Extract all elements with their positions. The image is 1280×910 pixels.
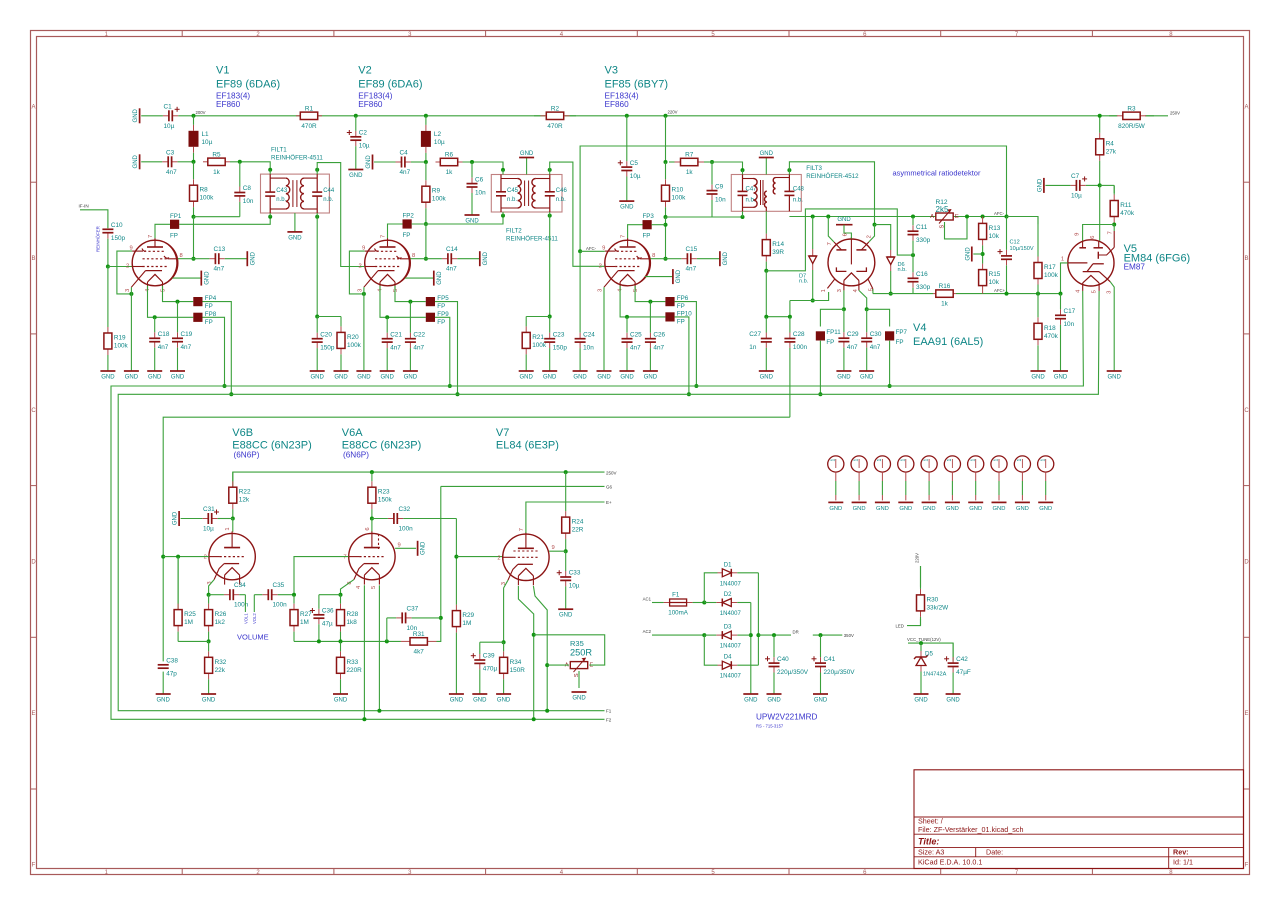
resistor R27 (290, 595, 312, 642)
svg-text:250R: 250R (570, 647, 592, 657)
junction FILT1 pin bl (268, 215, 272, 219)
svg-text:220µ/350V: 220µ/350V (777, 669, 809, 676)
wire V3 pin7 to FP3 (628, 225, 643, 239)
svg-text:GND: GND (311, 375, 325, 381)
wire V4 pin5 drop (872, 289, 874, 294)
wire FILT2 to V3 grid (550, 162, 605, 266)
junction V6A pin5 F1 (377, 709, 381, 713)
ground for C1 (133, 108, 140, 123)
junction FILT2 pin tr (548, 168, 552, 172)
svg-text:GND: GND (572, 696, 586, 702)
diode D2 (704, 592, 751, 617)
wire 350V row (813, 634, 843, 636)
socket pin 6 (944, 456, 960, 512)
svg-text:220V: 220V (914, 553, 919, 563)
svg-text:GND: GND (520, 151, 534, 157)
svg-text:470µ: 470µ (483, 666, 498, 673)
svg-text:C34: C34 (234, 582, 246, 589)
junction V6B cathode (207, 593, 211, 597)
svg-text:100k: 100k (200, 195, 215, 202)
svg-text:470R: 470R (547, 123, 563, 130)
wire FILT1 sec bottom down (316, 217, 318, 317)
svg-text:C46: C46 (556, 188, 568, 194)
junction AFC+ C17 (1059, 292, 1063, 296)
resistor R21 (522, 317, 547, 372)
capacitor C18 (149, 317, 170, 371)
svg-text:V6B: V6B (232, 427, 253, 439)
wire R20 tie (317, 316, 341, 318)
svg-text:7: 7 (621, 235, 627, 238)
wire FP7 to bus (889, 341, 891, 386)
svg-text:n.b.: n.b. (507, 197, 517, 203)
svg-text:C41: C41 (824, 656, 836, 663)
wire V6A pin5 heater (378, 585, 380, 710)
capacitor C40 (765, 635, 809, 694)
svg-text:EM87: EM87 (1124, 263, 1146, 272)
diode D7 (799, 249, 817, 285)
junction C12 top (1005, 215, 1009, 219)
wire FP1 to FILT1 pin (179, 217, 270, 225)
wire V2 pin6 gnd (405, 277, 434, 279)
junction R24 bottom (564, 549, 568, 553)
capacitor C11 (908, 217, 931, 256)
junction minus rail (749, 633, 753, 637)
svg-text:GND: GND (676, 269, 682, 283)
tube V7 (497, 528, 549, 585)
svg-text:D3: D3 (724, 625, 732, 631)
svg-text:6: 6 (842, 233, 848, 236)
junction FP11 tap (842, 307, 846, 311)
junction V1 grid (106, 265, 110, 269)
svg-text:GND: GND (744, 698, 758, 704)
ground C29 (836, 371, 851, 381)
wire R11 top (1113, 185, 1115, 193)
wire audio down (789, 301, 791, 317)
junction row2 stage2 (424, 160, 428, 164)
svg-text:10µ: 10µ (164, 123, 175, 130)
capacitor C35 (254, 582, 294, 609)
svg-text:10n: 10n (407, 625, 418, 632)
svg-text:1N4007: 1N4007 (720, 644, 742, 650)
svg-text:220µ/350V: 220µ/350V (824, 669, 856, 676)
svg-text:D5: D5 (925, 651, 933, 658)
junction R11 bottom (1112, 223, 1116, 227)
socket pin 2 (851, 456, 867, 512)
wire V6B cathode (209, 580, 215, 595)
junction FP8 bus (223, 384, 227, 388)
wire FP5 to heater bus (435, 302, 458, 395)
wire V3 pin4 row (620, 286, 665, 317)
junction FP6 bus (694, 384, 698, 388)
svg-text:EF860: EF860 (358, 100, 383, 109)
capacitor C23 (544, 317, 567, 372)
svg-text:n.b.: n.b. (556, 197, 566, 203)
svg-text:L2: L2 (434, 131, 442, 138)
junction rail R23 (370, 470, 374, 474)
svg-text:7: 7 (827, 242, 833, 245)
svg-text:R3: R3 (1127, 105, 1136, 112)
svg-text:33k/2W: 33k/2W (927, 604, 950, 611)
svg-text:A: A (930, 214, 934, 220)
socket pin 7 (968, 456, 984, 512)
wire rail to R7 (665, 116, 667, 162)
svg-text:1N4742A: 1N4742A (923, 672, 947, 678)
svg-text:4n7: 4n7 (413, 344, 424, 351)
wire R25 column (177, 557, 179, 610)
ground below FILT1 (287, 232, 302, 242)
ground C17 (1053, 371, 1068, 381)
svg-text:R29: R29 (462, 612, 474, 619)
svg-text:GND: GND (133, 154, 139, 168)
svg-text:5: 5 (633, 289, 639, 292)
resistor R24 (562, 472, 584, 551)
junction anode stage1 (192, 257, 196, 261)
wire FILT1 gnd stem (294, 213, 296, 232)
wire gnd tie R13R15 (973, 253, 982, 255)
junction AC2 node (702, 633, 706, 637)
svg-text:2: 2 (126, 264, 129, 270)
svg-text:EF860: EF860 (605, 100, 630, 109)
svg-text:GND: GND (250, 251, 256, 265)
junction rail R4 (1098, 114, 1102, 118)
svg-text:C22: C22 (413, 331, 425, 338)
svg-text:File: ZF-Verstärker_01.kicad_s: File: ZF-Verstärker_01.kicad_sch (918, 825, 1023, 834)
V7 g2 dashes (513, 550, 538, 552)
socket pin 8 (991, 456, 1007, 512)
svg-text:E: E (31, 711, 35, 717)
wire V2 pin9 loop (349, 251, 364, 294)
svg-text:5: 5 (371, 586, 377, 589)
wire R30 to LED (907, 619, 921, 626)
junction pin3/pin9 V2 (362, 292, 366, 296)
wire C39 tie (480, 641, 504, 643)
capacitor C36 (310, 595, 334, 642)
svg-text:3: 3 (1106, 291, 1112, 294)
capacitor C38 (158, 658, 179, 678)
junction row2 stage1 (192, 160, 196, 164)
svg-text:4n7: 4n7 (686, 266, 697, 273)
svg-text:E: E (1244, 711, 1248, 717)
wire V6A pin4 heater (363, 585, 365, 719)
svg-text:4n7: 4n7 (653, 344, 664, 351)
junction D7 bottom (811, 299, 815, 303)
wire V3 pin5 row (635, 286, 665, 302)
svg-text:1k: 1k (686, 169, 694, 176)
svg-text:GND: GND (620, 205, 634, 211)
svg-text:GND: GND (148, 375, 162, 381)
resistor R32 (205, 641, 227, 694)
wire AFC+ row b (956, 293, 1061, 295)
svg-text:V1: V1 (216, 65, 229, 77)
svg-text:1M: 1M (184, 619, 193, 626)
ground C14 (480, 251, 489, 266)
capacitor C27 (749, 317, 772, 371)
svg-text:7: 7 (519, 528, 525, 531)
svg-text:GND: GND (171, 375, 185, 381)
svg-text:GND: GND (202, 698, 216, 704)
wire R35 A (547, 664, 569, 666)
flag FP7 (885, 329, 908, 346)
wire audio row pin1 (790, 292, 829, 301)
wire R12 wiper (945, 217, 968, 239)
svg-text:9: 9 (130, 246, 133, 252)
wire R10 bottom row (666, 216, 743, 218)
svg-text:470k: 470k (1044, 333, 1059, 340)
svg-text:150p: 150p (320, 344, 335, 351)
ground C18 (147, 371, 162, 381)
svg-text:47µ: 47µ (322, 621, 333, 628)
svg-text:C6: C6 (475, 176, 484, 183)
svg-text:10n: 10n (715, 196, 726, 203)
svg-text:Rev:: Rev: (1173, 848, 1189, 857)
svg-text:C15: C15 (686, 246, 698, 253)
svg-text:5: 5 (393, 289, 399, 292)
svg-text:1k2: 1k2 (215, 619, 226, 626)
wire heater bus B (118, 291, 1099, 711)
potentiometer R35 (565, 639, 594, 677)
wire V7 pin4 heater (518, 586, 533, 719)
capacitor C34 (209, 582, 249, 609)
ground V1 pin6 (201, 271, 210, 286)
svg-text:GND: GND (357, 375, 371, 381)
svg-text:9: 9 (1074, 233, 1080, 236)
junction C12 bottom (1005, 292, 1009, 296)
svg-text:8: 8 (412, 253, 415, 259)
svg-text:AC2: AC2 (643, 629, 652, 634)
svg-text:F: F (32, 863, 36, 869)
svg-text:GND: GND (899, 506, 912, 512)
wire C37 left (386, 618, 388, 642)
svg-text:R27: R27 (300, 611, 312, 618)
junction D6 bottom (889, 292, 893, 296)
ground R20 (334, 371, 349, 381)
ground V2 pin6 (434, 271, 443, 286)
wire D7 from row (812, 217, 814, 250)
svg-text:F: F (1245, 863, 1249, 869)
svg-text:VOL1: VOL1 (243, 613, 248, 624)
title block (914, 770, 1244, 869)
svg-text:2: 2 (866, 235, 872, 238)
svg-text:R14: R14 (772, 241, 784, 248)
capacitor C41 (812, 635, 856, 694)
svg-text:100n: 100n (234, 602, 249, 609)
svg-text:GND: GND (543, 375, 557, 381)
svg-text:GND: GND (101, 375, 115, 381)
capacitor C24 (575, 251, 596, 371)
junction R31 left (385, 639, 389, 643)
svg-text:39R: 39R (772, 249, 784, 256)
svg-text:C5: C5 (630, 160, 639, 167)
ground C20 (310, 371, 325, 381)
wire V7 cathode (504, 580, 508, 642)
svg-text:2: 2 (204, 555, 207, 561)
svg-text:FP: FP (643, 233, 651, 240)
svg-text:V2: V2 (358, 65, 371, 77)
wire 220V to R30 (920, 566, 922, 587)
ground R32 (201, 694, 216, 704)
svg-text:150R: 150R (510, 667, 526, 674)
wire FILT2 pin stubs (503, 170, 550, 216)
junction V4 pin2 node (873, 223, 877, 227)
wire grid to V1 pin2 (108, 266, 132, 268)
svg-text:(6N6P): (6N6P) (343, 451, 369, 460)
svg-text:2: 2 (497, 555, 500, 561)
ground C25 (620, 371, 635, 381)
svg-text:C23: C23 (553, 331, 565, 338)
wire AC2 row (652, 634, 704, 636)
junction C41 top (819, 633, 823, 637)
junction rail C5 (625, 114, 629, 118)
wire G6 line (441, 485, 605, 487)
svg-text:4n7: 4n7 (166, 169, 177, 176)
ground C40 (767, 694, 782, 704)
junction rail 220V (664, 114, 668, 118)
wire FP3 to anode column (652, 224, 666, 226)
svg-text:GND: GND (125, 375, 139, 381)
svg-text:GND: GND (1054, 375, 1068, 381)
svg-text:220R: 220R (347, 667, 363, 674)
svg-text:R23: R23 (378, 489, 390, 496)
wire IF-IN to C10 (80, 210, 108, 228)
capacitor C19 (172, 302, 193, 371)
svg-text:C44: C44 (323, 188, 335, 194)
wire V1 pin4 row (148, 286, 194, 318)
ground C31 (173, 511, 180, 526)
svg-text:GND: GND (497, 698, 511, 704)
resistor R23 (368, 472, 393, 518)
svg-text:D: D (31, 559, 36, 565)
capacitor C25 (622, 317, 643, 371)
wire VCC row (908, 643, 953, 661)
svg-text:47p: 47p (166, 671, 177, 678)
junction FP5 bus (456, 392, 460, 396)
ground V5 pin3 (1107, 371, 1122, 381)
svg-text:REINHÖFER-4511: REINHÖFER-4511 (271, 155, 323, 162)
capacitor C15 (666, 246, 720, 273)
wire plus rail right (757, 573, 759, 665)
capacitor C7 (1045, 173, 1099, 200)
svg-text:EF85 (6BY7): EF85 (6BY7) (605, 79, 669, 91)
svg-text:5: 5 (1091, 290, 1097, 293)
svg-text:R17: R17 (1044, 264, 1056, 271)
svg-text:100n: 100n (793, 344, 808, 351)
wire V1 pin6 gnd (173, 277, 202, 279)
svg-text:GND: GND (767, 698, 781, 704)
svg-text:9: 9 (552, 545, 555, 551)
wire R23 to V6A (371, 519, 373, 532)
svg-text:GND: GND (946, 506, 959, 512)
resistor R9 (422, 162, 447, 224)
svg-text:RS - 715-3157: RS - 715-3157 (756, 724, 784, 729)
wire V2 pin3 to gnd (363, 287, 365, 371)
junction R9 bottom FP2 (424, 222, 428, 226)
svg-text:1: 1 (821, 289, 827, 292)
svg-text:FP: FP (170, 232, 178, 239)
transformer FILT3 (731, 165, 859, 211)
svg-text:FP3: FP3 (643, 213, 655, 220)
ground C41 (813, 694, 828, 704)
svg-text:8: 8 (180, 253, 183, 259)
svg-text:V7: V7 (496, 427, 509, 439)
resistor R17 (1034, 217, 1059, 294)
svg-text:100n: 100n (273, 602, 288, 609)
tube V3 (598, 235, 656, 292)
svg-text:C29: C29 (847, 331, 859, 338)
junction FILT2 pin br (548, 214, 552, 218)
svg-text:10µ: 10µ (203, 526, 214, 533)
capacitor C12 (998, 217, 1013, 294)
svg-text:R24: R24 (572, 519, 584, 526)
svg-text:10µ: 10µ (434, 139, 445, 146)
svg-text:R16: R16 (939, 283, 951, 290)
svg-text:C13: C13 (214, 246, 226, 253)
svg-text:E: E (955, 214, 959, 220)
junction hum A tie (545, 663, 549, 667)
svg-text:GND: GND (366, 155, 372, 169)
svg-text:10µ: 10µ (630, 173, 641, 180)
svg-text:n.b.: n.b. (793, 197, 803, 203)
wire D6 to AFC+ row (890, 271, 892, 294)
svg-text:2: 2 (359, 264, 362, 270)
junction rail C2 (354, 114, 358, 118)
wire AFC+ row (873, 293, 933, 295)
svg-text:150p: 150p (553, 344, 568, 351)
svg-text:GND: GND (437, 271, 443, 285)
svg-text:GND: GND (923, 506, 936, 512)
svg-text:5: 5 (161, 289, 167, 292)
zener D5 (914, 643, 947, 680)
junction pin3/pin9 V1 (129, 292, 133, 296)
resistor R19 (104, 267, 129, 372)
svg-text:FP: FP (826, 339, 834, 346)
svg-text:B: B (1244, 256, 1248, 262)
wire audio rail 250V (233, 472, 605, 487)
svg-text:1n: 1n (749, 344, 757, 351)
wire V6B grid row (163, 556, 209, 558)
svg-text:GND: GND (946, 698, 960, 704)
svg-text:GND: GND (1039, 506, 1052, 512)
diode D4 (718, 655, 759, 680)
wire V4 pin3 col (843, 290, 845, 309)
capacitor C30 (861, 309, 882, 371)
svg-text:C4: C4 (400, 150, 409, 157)
svg-text:R9: R9 (432, 188, 441, 195)
capacitor C4 (374, 150, 426, 177)
svg-text:R7: R7 (685, 152, 694, 159)
label C12 (1010, 240, 1034, 253)
resistor R31 (401, 631, 437, 656)
capacitor C5 (618, 116, 641, 201)
svg-text:GND: GND (381, 375, 395, 381)
wire VOL2 stub (253, 595, 255, 612)
wire V2 pin8 row (410, 258, 426, 260)
svg-text:C38: C38 (166, 658, 178, 665)
svg-text:n.b.: n.b. (276, 197, 286, 203)
junction V6A cathode (339, 593, 343, 597)
svg-text:10n: 10n (583, 344, 594, 351)
svg-text:1k8: 1k8 (347, 619, 358, 626)
svg-text:C10: C10 (111, 222, 123, 229)
svg-text:Id: 1/1: Id: 1/1 (1173, 857, 1193, 866)
svg-text:C33: C33 (569, 570, 581, 577)
svg-text:GND: GND (288, 235, 302, 241)
junction FILT3 pin bl (741, 215, 745, 219)
svg-text:AC1: AC1 (643, 597, 652, 602)
svg-text:Sheet: /: Sheet: / (918, 816, 943, 825)
resistor R29 (452, 557, 474, 694)
junction V6A pin4 F2 (362, 717, 366, 721)
ground C7 (1037, 178, 1044, 193)
